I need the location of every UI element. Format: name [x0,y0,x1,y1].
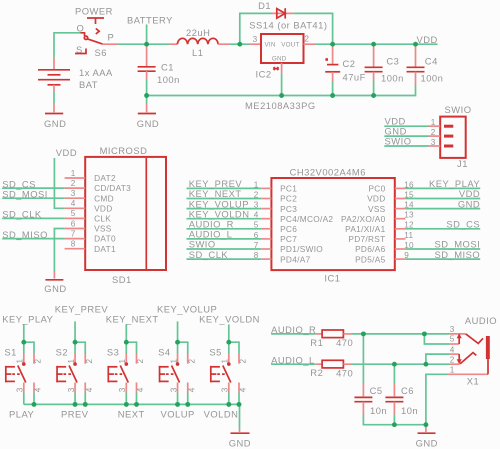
svg-text:SD1: SD1 [112,274,132,285]
capacitor C2 47uF polarized [325,58,328,61]
mcu IC1 pin 4 PC4/MCO/A2 [261,218,271,220]
mcu IC1 pin 15 VDD [395,198,406,200]
svg-text:100n: 100n [157,74,180,85]
connector X1 switch arrow L [458,354,460,360]
svg-text:PC3: PC3 [280,204,297,214]
wire BATTERY label stub [146,25,148,45]
svg-text:22uH: 22uH [186,27,210,38]
op-amp IC2 pin 3 VIN [250,43,262,45]
wire battery top to switch O [54,33,81,58]
mcu IC1 pin 16 PC0 [395,187,406,189]
wire net SWIO [187,248,262,250]
wire S3 to rail [125,393,127,405]
svg-text:PD6/A6: PD6/A6 [355,244,385,254]
wire S2 top bracket [75,342,85,353]
svg-text:C3: C3 [386,56,399,67]
svg-text:S1: S1 [4,347,16,358]
switch S3 pin 2 [136,354,138,364]
junction C2 bottom [330,93,335,98]
gnd pin stub [425,425,427,432]
switch S5 pin 1 [228,354,230,364]
wire S5 to rail [228,393,230,405]
svg-text:VDD: VDD [367,194,385,204]
wire SD_MOSI to pin3 [2,197,64,199]
junction boost node [237,42,242,47]
junction C1 top [144,42,149,47]
svg-text:1: 1 [450,365,455,374]
junction S5 top [226,340,231,345]
wire net GND [405,208,480,210]
gnd pin stub [239,429,241,432]
wire L1 to IC2 [229,43,250,45]
svg-text:VDD: VDD [94,203,112,213]
svg-text:PLAY: PLAY [9,408,35,419]
ground symbol under battery [45,113,63,115]
gnd pin stub [53,103,55,112]
wire switch P to L1 [118,43,169,45]
mcu IC1 pin 11 PD7/RST [395,238,406,240]
svg-text:BAT: BAT [79,79,98,90]
wire net KEY_PREV [187,187,262,189]
svg-text:3: 3 [67,387,76,392]
svg-text:11: 11 [404,231,413,240]
junction IC2 gnd [279,93,284,98]
svg-text:GND: GND [229,438,251,449]
svg-text:VDD: VDD [56,147,77,158]
svg-text:DAT2: DAT2 [94,173,116,183]
svg-text:DAT0: DAT0 [94,234,116,244]
switch S5 body [210,366,212,382]
wire net SD_MISO [405,258,480,260]
resistor R2 pin right [343,363,352,365]
svg-text:4: 4 [187,387,196,392]
svg-text:S3: S3 [107,347,119,358]
svg-text:CH32V002A4M6: CH32V002A4M6 [290,167,366,178]
wire KEY_PLAY down to S1 [23,324,25,342]
junction S2 pin4 rail [83,402,88,407]
junction C3 bottom [371,93,376,98]
svg-text:2: 2 [136,359,145,364]
switch S2 blade [69,366,77,383]
switch S1 blade [18,366,26,383]
svg-text:3: 3 [16,387,25,392]
svg-text:IC2: IC2 [256,69,272,80]
junction C1 bottom [144,93,149,98]
switch S3 pin 1 [125,354,127,364]
wire R1 to jack [352,333,449,335]
mcu IC1 pin 10 PD6/A6 [395,248,406,250]
svg-text:KEY_PREV: KEY_PREV [55,304,109,315]
svg-text:PC1: PC1 [280,184,297,194]
wire C4 to gnd rail [147,85,416,96]
svg-text:3: 3 [253,35,258,44]
wire S4 top bracket [178,342,188,353]
svg-text:47uF: 47uF [343,72,366,83]
wire S2 to rail [74,393,76,405]
svg-text:PC4/MCO/A2: PC4/MCO/A2 [280,214,333,224]
switch S2 pin 4 [84,383,86,393]
svg-text:GND: GND [272,55,287,62]
svg-text:PD5/A5: PD5/A5 [355,254,385,264]
wire SD_CLK to pin5 [2,217,64,219]
connector J1 pin 3 [444,145,453,148]
svg-text:100n: 100n [421,73,444,84]
switch S2 contact dot [73,362,77,366]
mcu IC1 box [271,178,394,270]
switch S3 pin 3 [125,383,127,393]
switch S4 pin 3 [177,383,179,393]
svg-text:3: 3 [450,325,455,334]
svg-text:1: 1 [431,118,436,127]
wire KEY_VOLDN down to S5 [228,324,230,342]
svg-text:3: 3 [431,138,436,147]
connector X1 ring contact L [460,353,476,364]
svg-text:SD_CLK: SD_CLK [189,249,229,260]
junction S2 top [73,340,78,345]
microsd SD1 pin 3 CMD [65,197,86,199]
svg-text:R1: R1 [310,337,323,348]
wire net SD_MOSI [405,248,480,250]
svg-text:NEXT: NEXT [118,408,145,419]
inductor L1 pin left [169,43,177,45]
switch S5 blade [223,366,231,383]
battery pin bottom [53,85,55,91]
svg-text:AUDIO: AUDIO [465,315,497,326]
battery BAT pin top [53,58,55,70]
wire buttons gnd rail [24,404,240,429]
junction S5 pin3 rail [226,402,231,407]
svg-text:KEY_PLAY: KEY_PLAY [2,313,53,324]
connector X1 tip contact R [466,334,483,344]
svg-text:3: 3 [221,387,230,392]
capacitor C2 pin top [332,44,334,64]
power supply tap symbol [87,17,104,19]
svg-text:P: P [108,32,115,43]
capacitor C5 pin bottom [362,402,364,415]
mcu IC1 pin 1 PC1 [261,187,271,189]
wire battery to gnd [53,91,55,103]
svg-text:PD1/SWIO: PD1/SWIO [280,244,323,254]
microsd SD1 pin 6 VSS [65,228,86,230]
svg-text:C2: C2 [343,58,356,69]
ground symbol microsd [45,279,63,281]
wire net SD_CS [405,228,480,230]
wire AUDIO_R to R1 [271,333,315,335]
wire VDD to J1 [384,125,428,127]
svg-text:470: 470 [336,337,353,348]
junction C4 top [413,42,418,47]
switch S5 pin 3 [228,383,230,393]
junction S3 pin3 rail [124,402,129,407]
ground symbol buttons [231,432,250,434]
wire SD_MISO to pin7 [2,238,64,240]
wire C3 to gnd rail [373,81,375,96]
svg-text:GND: GND [137,118,159,129]
svg-text:VSS: VSS [368,204,386,214]
regulator IC2 box [261,34,304,63]
wire KEY_PREV down to S2 [74,321,76,342]
microsd SD1 box [85,157,166,270]
junction C6 bottom [392,422,397,427]
wire IC2 out to VDD node [315,43,368,45]
junction S3 top [124,340,129,345]
diode D1 anode pin [272,12,293,14]
junction C3 top [371,42,376,47]
switch S4 body [159,366,161,382]
svg-text:SWIO: SWIO [385,136,412,147]
svg-text:S2: S2 [56,347,68,358]
capacitor C1 pin bottom [146,71,148,80]
microsd SD1 pin 2 CD/DAT3 [65,187,86,189]
svg-text:R2: R2 [310,367,323,378]
junction C2 top [330,42,335,47]
capacitor C5 pin top wire [362,334,364,383]
mcu IC1 pin 12 PA1/XI/A1 [395,228,406,230]
svg-text:3: 3 [118,387,127,392]
gnd pin stub [53,272,55,279]
mcu IC1 pin 5 PC6 [261,228,271,230]
svg-text:C5: C5 [370,385,383,396]
capacitor C4 pin top [415,44,417,66]
svg-text:5: 5 [450,335,455,344]
junction S4 pin3 rail [175,402,180,407]
svg-text:4: 4 [136,387,145,392]
svg-text:GND: GND [458,198,480,209]
junction S4 pin4 rail [185,402,190,407]
svg-text:8: 8 [71,240,76,249]
svg-text:10n: 10n [401,405,418,416]
capacitor C4 pin bottom [415,72,417,85]
wire net SD_CLK [187,258,262,260]
svg-text:S5: S5 [209,347,221,358]
microsd SD1 pin 5 CLK [65,217,86,219]
resistor R1 pin left [315,333,322,335]
wire C6 to gnd rail [393,415,395,425]
svg-text:X1: X1 [467,376,479,387]
svg-text:MICROSD: MICROSD [100,145,148,156]
connector J1 pin 2 [444,135,453,138]
switch S5 contact dot [227,362,231,366]
wire GND to J1 [384,135,428,137]
switch S4 pin 4 [187,383,189,393]
svg-text:S4: S4 [158,347,170,358]
inductor L1 22uH [177,38,218,44]
switch S4 contact dot [176,362,180,366]
junction S3 pin4 rail [134,402,139,407]
svg-text:100n: 100n [381,73,404,84]
wire SWIO to J1 [384,145,428,147]
svg-text:ME2108A33PG: ME2108A33PG [245,100,316,111]
svg-text:VDD: VDD [417,34,438,45]
switch S3 body [107,366,109,382]
switch S1 pin 1 [23,354,25,364]
switch S4 pin 2 [187,354,189,364]
junction S5 pin4 rail [237,402,242,407]
svg-text:2: 2 [71,179,76,188]
switch S3 pin 4 [136,383,138,393]
svg-text:PC6: PC6 [280,224,297,234]
wire S1 to rail [23,393,25,405]
svg-text:J1: J1 [457,158,468,169]
svg-text:10n: 10n [370,405,387,416]
svg-text:CMD: CMD [94,193,114,203]
capacitor C5 10n [354,396,372,398]
wire S4 to rail [177,393,179,405]
svg-text:2: 2 [304,35,309,44]
svg-text:PC0: PC0 [368,184,385,194]
svg-text:SWIO: SWIO [445,104,472,115]
capacitor C1 [138,66,156,68]
junction S1 pin4 rail [32,402,37,407]
svg-text:PC2: PC2 [280,194,297,204]
svg-text:3: 3 [71,189,76,198]
svg-text:BATTERY: BATTERY [127,15,173,26]
wire jack L bracket to pin 4 [426,354,449,364]
svg-text:GND: GND [44,118,66,129]
switch S2 pin 1 [74,354,76,364]
svg-text:4: 4 [71,199,76,208]
capacitor C4 100n [407,66,425,68]
capacitor C6 pin bottom [393,402,395,415]
svg-text:7: 7 [71,229,76,238]
svg-text:PD7/RST: PD7/RST [348,234,385,244]
svg-text:1: 1 [71,169,76,178]
switch S1 pin 2 [33,354,35,364]
diode D1 [277,9,285,19]
mcu IC1 pin 8 PD4/A7 [261,258,271,260]
wire net KEY_VOLDN [187,218,262,220]
svg-text:L1: L1 [192,47,203,58]
svg-text:S6: S6 [95,47,107,58]
svg-text:IC1: IC1 [324,273,340,284]
wire net KEY_PLAY [405,187,480,189]
switch S3 blade [120,366,128,383]
switch S6 blade [87,39,103,44]
svg-text:CLK: CLK [94,214,111,224]
wire S5 top bracket [229,342,239,353]
junction jack R bracket [422,331,427,336]
wire VSS to gnd [54,229,64,272]
junction S4 top [175,340,180,345]
svg-text:470: 470 [336,368,353,379]
svg-text:VOLUP: VOLUP [161,408,195,419]
svg-text:2: 2 [450,355,455,364]
svg-text:VOUT: VOUT [281,42,299,49]
capacitor C3 pin bottom [373,72,375,81]
capacitor C3 pin top [373,44,375,66]
microsd SD1 card detect line [145,158,147,269]
connector J1 box [440,117,466,158]
wire VDD label underline [416,43,438,45]
wire VDD to SD1 pin4 [54,158,64,208]
capacitor C6 10n [385,396,403,398]
wire boost node up to D1 [240,13,272,44]
wire R2 to jack [352,363,449,365]
svg-text:GND: GND [416,438,438,449]
svg-text:2: 2 [239,359,248,364]
junction C6 top [392,362,397,367]
svg-text:KEY_NEXT: KEY_NEXT [106,313,159,324]
svg-text:KEY_VOLDN: KEY_VOLDN [199,313,260,324]
regulator IC2 pin 1 GND [281,63,283,74]
wire C5 to gnd rail [363,415,426,425]
wire net KEY_NEXT [187,198,262,200]
wire D1 to VDD node [293,13,332,44]
svg-text:GND: GND [44,283,66,294]
svg-text:4: 4 [450,345,455,354]
capacitor C6 pin top wire [393,364,395,383]
mcu IC1 pin 2 PC2 [261,198,271,200]
microsd SD1 pin 7 DAT0 [65,238,86,240]
svg-text:C6: C6 [401,385,414,396]
wire pin1 to gnd rail [426,374,447,424]
svg-text:CD/DAT3: CD/DAT3 [94,183,131,193]
switch S1 contact dot [22,362,26,366]
switch S2 body [56,366,58,382]
mcu IC1 pin 3 PC3 [261,208,271,210]
wire SD_CS to pin2 [2,187,64,189]
wire KEY_NEXT down to S3 [125,324,127,342]
svg-text:4: 4 [34,387,43,392]
junction C5 top [361,331,366,336]
wire net VDD [405,198,480,200]
switch S1 pin 3 [23,383,25,393]
svg-text:2: 2 [431,128,436,137]
mcu IC1 pin 6 PC7 [261,238,271,240]
svg-text:SD_CS: SD_CS [446,219,480,230]
wire S3 top bracket [126,342,136,353]
svg-text:1x AAA: 1x AAA [79,67,113,78]
junction S2 pin3 rail [73,402,78,407]
mcu IC1 pin 7 PD1/SWIO [261,248,271,250]
svg-text:POWER: POWER [75,6,113,17]
wire AUDIO_L to R2 [271,363,315,365]
junction jack L bracket [423,362,428,367]
switch S2 pin 2 [84,354,86,364]
wire net AUDIO_R [187,228,262,230]
switch S4 pin 1 [177,354,179,364]
svg-text:SD_MISO: SD_MISO [434,249,480,260]
svg-text:PC7: PC7 [280,234,297,244]
svg-text:DAT1: DAT1 [94,244,116,254]
wire KEY_VOLUP down to S4 [177,321,179,342]
switch S3 contact dot [125,362,129,366]
svg-text:6: 6 [71,219,76,228]
svg-text:O: O [77,23,85,34]
svg-text:2: 2 [187,359,196,364]
wire C2 to gnd rail [332,81,334,96]
wire jack R bracket to pin 5 [424,334,449,344]
switch S4 blade [172,366,180,383]
svg-text:3: 3 [169,387,178,392]
connector X1 switch arrow R [458,338,460,345]
battery 1x AAA BAT [38,69,70,71]
wire C1 to gnd rail [146,80,148,96]
connector X1 sleeve bar [486,336,490,359]
svg-text:2: 2 [34,359,43,364]
svg-text:PA1/XI/A1: PA1/XI/A1 [345,224,385,234]
capacitor C3 100n [365,66,383,68]
wire gnd rail down [146,96,148,105]
wire VDD node to C4 [368,43,416,45]
svg-text:4: 4 [85,387,94,392]
resistor R2 pin left [315,363,322,365]
wire net AUDIO_L [187,238,262,240]
switch S1 body [5,366,7,382]
resistor R1 pin right [343,333,352,335]
inductor L1 pin right [218,43,229,45]
connector J1 pin 1 [444,125,453,128]
